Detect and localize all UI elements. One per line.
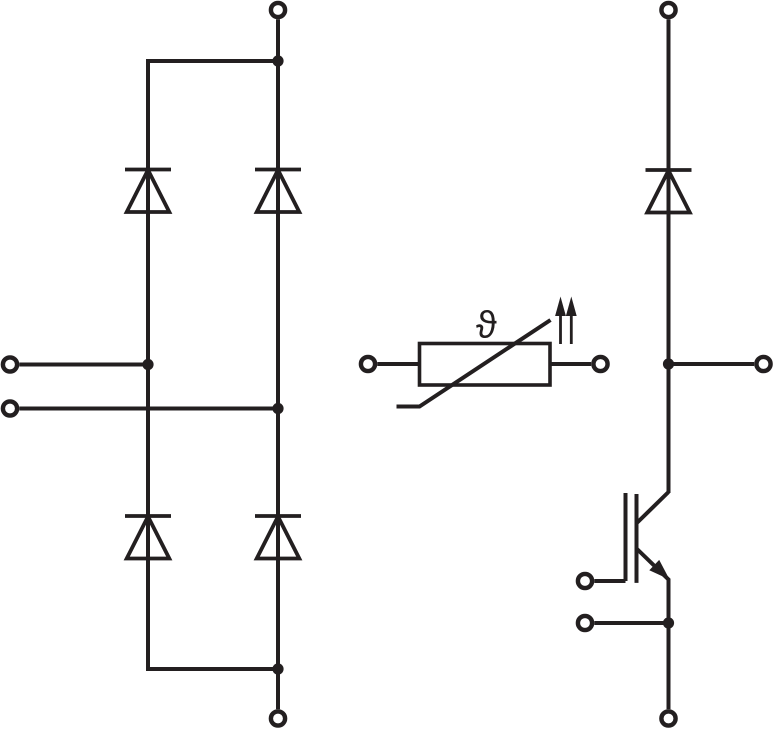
node top bus junction xyxy=(272,55,283,66)
terminal thermistor left xyxy=(361,357,375,371)
terminal thermistor right xyxy=(593,357,607,371)
diode D2 (top right) xyxy=(255,170,301,213)
diode D3 (bottom left) xyxy=(125,516,171,559)
wire thermistor left lead xyxy=(377,362,419,366)
node bottom bus junction xyxy=(272,663,283,674)
terminal chopper top xyxy=(661,3,675,17)
arrow heat 2 xyxy=(566,297,577,345)
diode D5 (chopper) xyxy=(646,170,692,213)
node emitter junction xyxy=(663,617,674,628)
wire top horizontal + left bus vertical + bottom horizontal xyxy=(148,61,278,669)
diode D1 (top left) xyxy=(125,170,171,213)
wire AC2 xyxy=(19,407,278,411)
wire aux emitter lead xyxy=(594,621,668,625)
wire thermistor right lead xyxy=(550,362,591,366)
wire emitter vertical xyxy=(667,579,671,709)
terminal DC- bottom (left bridge) xyxy=(271,711,285,725)
wire gate lead xyxy=(594,579,625,583)
collector lead diagonal xyxy=(636,492,668,524)
node collector junction xyxy=(663,358,674,369)
emitter arrowhead xyxy=(649,560,669,580)
terminal chopper bottom xyxy=(661,711,675,725)
gate bar xyxy=(624,493,628,581)
svg-text:ϑ: ϑ xyxy=(476,304,497,346)
node AC1 junction xyxy=(142,359,153,370)
terminal AC input 1 xyxy=(3,357,17,371)
thermistor R(NTC) body xyxy=(420,344,551,386)
node AC2 junction xyxy=(272,403,283,414)
transistor T1 IGBT xyxy=(626,492,670,583)
terminal chopper mid right xyxy=(756,357,770,371)
arrow heat 1 xyxy=(555,297,566,345)
wire right-bus vertical of bridge xyxy=(276,19,280,709)
terminal AC+ top (left bridge) xyxy=(271,3,285,17)
diode D4 (bottom right) xyxy=(255,516,301,559)
emitter lead diagonal xyxy=(637,549,670,581)
wire AC1 xyxy=(19,363,148,367)
body bar xyxy=(635,494,639,583)
terminal gate xyxy=(578,574,592,588)
terminal aux emitter xyxy=(578,616,592,630)
thermistor diagonal stroke xyxy=(397,320,551,407)
wire chopper top vertical xyxy=(667,19,671,493)
wire to right terminal xyxy=(669,362,755,366)
terminal AC input 2 xyxy=(3,401,17,415)
